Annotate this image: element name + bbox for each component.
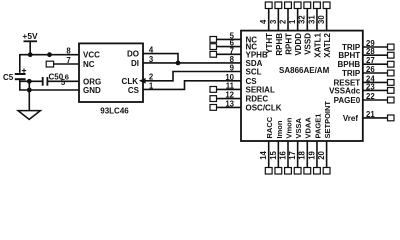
svg-text:9: 9 xyxy=(230,64,235,73)
svg-text:4: 4 xyxy=(259,19,268,24)
svg-text:11: 11 xyxy=(226,81,235,90)
wire CLK pin 2 to SCL pin 9 xyxy=(145,72,241,81)
svg-text:28: 28 xyxy=(366,47,375,56)
svg-text:12: 12 xyxy=(225,91,234,100)
svg-text:OSC/CLK: OSC/CLK xyxy=(246,103,282,112)
svg-text:32: 32 xyxy=(298,15,307,24)
U1 pin 5 NC wire with terminal xyxy=(210,37,241,43)
svg-text:7: 7 xyxy=(66,56,70,65)
svg-text:NC: NC xyxy=(83,60,95,69)
svg-text:93LC46: 93LC46 xyxy=(100,107,129,116)
svg-text:17: 17 xyxy=(288,151,297,160)
capacitor C50 xyxy=(43,72,64,85)
svg-text:19: 19 xyxy=(307,150,316,159)
U1 pin 7 YPHB wire with terminal xyxy=(210,51,241,57)
svg-text:14: 14 xyxy=(259,150,268,159)
svg-text:15: 15 xyxy=(269,150,278,159)
svg-text:SERIAL: SERIAL xyxy=(246,85,275,94)
svg-text:30: 30 xyxy=(317,15,326,24)
U1 top pin 2 RPHT wire with terminal xyxy=(285,2,292,31)
junction node GND/ground stem xyxy=(27,88,32,93)
junction node ORG/ground stem xyxy=(27,79,32,84)
svg-text:ORG: ORG xyxy=(83,77,101,86)
U1 pin 22 PAGE0 wire with terminal xyxy=(363,97,394,103)
IC U1 SA866AE/AM body xyxy=(241,31,363,141)
svg-text:VCC: VCC xyxy=(83,51,100,60)
svg-text:PAGE0: PAGE0 xyxy=(334,96,361,105)
U1 pin 29 TRIP wire with terminal xyxy=(363,44,394,50)
U1 pin 6 NC wire with terminal xyxy=(210,44,241,50)
wire ORG row from rail to C50 xyxy=(20,80,43,82)
svg-text:Vref: Vref xyxy=(343,114,358,123)
ground xyxy=(18,111,40,120)
svg-text:VSSD: VSSD xyxy=(304,33,313,55)
wire CS pin 1 to CS pin 10 xyxy=(143,81,241,90)
svg-text:8: 8 xyxy=(66,47,71,56)
svg-text:YTHT: YTHT xyxy=(265,33,274,54)
U1 pin 12 RDEC wire with terminal xyxy=(210,96,241,102)
U1 pin 21 Vref wire with terminal xyxy=(363,115,394,121)
junction node above NC terminal xyxy=(47,52,52,57)
U2 pin 7 NC wire with terminal xyxy=(46,61,79,67)
U1 top pin 31 XATL1 wire with terminal xyxy=(314,2,321,31)
svg-text:31: 31 xyxy=(307,15,316,24)
U1 bottom pin 19 PAGE1 wire with terminal xyxy=(314,141,321,174)
U1 bottom pin 20 SETPOINT wire with terminal xyxy=(323,141,330,174)
wire DI pin 3 / SDA pin 8 bus xyxy=(143,62,241,64)
U1 top pin 30 XATL2 wire with terminal xyxy=(323,2,330,31)
U1 top pin 32 VSSD wire with terminal xyxy=(304,2,311,31)
svg-text:BPHT: BPHT xyxy=(338,51,360,60)
wire C50 to ORG pin 6 xyxy=(47,80,79,82)
svg-text:13: 13 xyxy=(225,99,234,108)
svg-text:RPHB: RPHB xyxy=(275,33,284,56)
wire DO pin 4 to SDA net xyxy=(143,54,178,63)
svg-text:3: 3 xyxy=(269,19,278,24)
U1 pin 24 RESET wire with terminal xyxy=(363,80,394,86)
svg-text:SETPOINT: SETPOINT xyxy=(323,101,332,139)
svg-text:1: 1 xyxy=(288,19,297,24)
svg-text:21: 21 xyxy=(366,110,375,119)
svg-text:26: 26 xyxy=(366,65,375,74)
svg-text:18: 18 xyxy=(298,150,307,159)
svg-text:16: 16 xyxy=(278,150,287,159)
svg-text:2: 2 xyxy=(278,19,287,24)
svg-text:+5V: +5V xyxy=(22,31,38,41)
svg-text:27: 27 xyxy=(366,56,375,65)
svg-text:BPHB: BPHB xyxy=(338,60,361,69)
junction node at +5V stem xyxy=(28,52,33,57)
U1 top pin 1 VDDD wire with terminal xyxy=(294,2,301,31)
wire GND pin 5 to rail xyxy=(20,89,79,91)
svg-text:RACC: RACC xyxy=(265,116,274,138)
svg-text:XATL1: XATL1 xyxy=(313,32,322,57)
svg-text:DO: DO xyxy=(127,50,139,59)
svg-text:RDEC: RDEC xyxy=(246,95,269,104)
svg-text:CS: CS xyxy=(128,86,140,95)
svg-text:VDAA: VDAA xyxy=(304,117,313,139)
svg-text:TRIP: TRIP xyxy=(342,69,361,78)
svg-text:VDDD: VDDD xyxy=(294,33,303,56)
svg-text:23: 23 xyxy=(366,82,375,91)
capacitor C5 xyxy=(3,68,26,82)
U1 top pin 3 RPHB wire with terminal xyxy=(275,2,282,31)
svg-text:22: 22 xyxy=(366,92,375,101)
U1 bottom pin 16 Vmon wire with terminal xyxy=(285,141,292,174)
svg-text:Imon: Imon xyxy=(275,120,284,138)
svg-text:RPHT: RPHT xyxy=(284,33,293,55)
wire C5 to ground rail corner xyxy=(19,79,21,91)
U1 pin 13 OSC/CLK wire with terminal xyxy=(210,105,241,111)
U1 bottom pin 14 RACC wire with terminal xyxy=(265,141,272,174)
U2 CLK input arrow xyxy=(139,78,146,84)
svg-text:XATL2: XATL2 xyxy=(323,32,332,57)
U1 pin 11 SERIAL wire with terminal xyxy=(210,87,241,93)
wire left rail down to C5 xyxy=(19,54,21,73)
svg-text:VSSAdc: VSSAdc xyxy=(329,86,361,95)
svg-text:SCL: SCL xyxy=(246,68,262,77)
svg-text:PAGE1: PAGE1 xyxy=(313,114,322,139)
wire to ground symbol xyxy=(28,81,30,110)
svg-text:DI: DI xyxy=(131,59,139,68)
U1 bottom pin 15 Imon wire with terminal xyxy=(275,141,282,174)
junction node DO/DI/SDA xyxy=(176,61,181,66)
U1 pin 23 VSSAdc wire with terminal xyxy=(363,88,394,94)
U1 pin 26 TRIP wire with terminal xyxy=(363,70,394,76)
U1 bottom pin 18 VDAA wire with terminal xyxy=(304,141,311,174)
svg-text:GND: GND xyxy=(83,86,101,95)
power +5V supply symbol xyxy=(22,31,38,55)
IC U2 93LC46 body xyxy=(79,43,143,102)
svg-text:SA866AE/AM: SA866AE/AM xyxy=(279,66,330,75)
svg-text:5: 5 xyxy=(61,78,66,87)
U1 pin 28 BPHT wire with terminal xyxy=(363,52,394,58)
svg-text:Vmon: Vmon xyxy=(284,117,293,138)
svg-text:VSSA: VSSA xyxy=(294,117,303,138)
wire +5V rail to VCC pin 8 xyxy=(20,54,79,56)
svg-text:6: 6 xyxy=(65,72,69,81)
U1 pin 27 BPHB wire with terminal xyxy=(363,61,394,67)
svg-text:20: 20 xyxy=(317,150,326,159)
svg-text:CLK: CLK xyxy=(122,77,139,86)
U1 bottom pin 17 VSSA wire with terminal xyxy=(294,141,301,174)
svg-text:C5: C5 xyxy=(3,73,14,82)
U1 top pin 4 YTHT wire with terminal xyxy=(265,2,272,31)
